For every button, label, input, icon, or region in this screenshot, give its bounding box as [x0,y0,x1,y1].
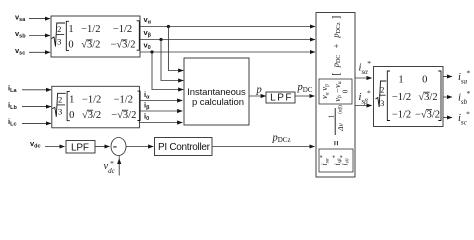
wire summer to PI [126,146,153,148]
block U5 current reference calculator (tall) [316,13,355,178]
wire i_beta to p-calc [139,110,182,112]
wire pDC to big block [295,95,315,97]
wire isalpha* ref to inverse block [355,77,372,79]
bracket [ U6 [387,71,390,121]
wire i_alpha to p-calc [139,100,182,102]
block U8 PI Controller [155,138,213,156]
block U1 Clarke transform (voltages) [51,16,140,57]
svg-text:PI Controller: PI Controller [158,142,211,153]
svg-text:vdc: vdc [30,139,41,150]
svg-text:p calculation: p calculation [192,97,244,108]
junction dot v_beta [159,38,162,41]
svg-text:(αβ): (αβ) [339,105,344,114]
svg-text:isc*: isc* [458,109,470,126]
block U3 instantaneous p calculation [184,58,249,125]
block U7 LPF (vdc path) [66,141,95,154]
equals sign rotated [334,141,336,145]
svg-text:vα vβ: vα vβ [320,84,330,99]
wire v_0 drop to p-calc [152,52,183,90]
inner box voltage matrix (rotated) [319,79,352,104]
wire iLc [22,122,51,124]
svg-text:−√3/2: −√3/2 [415,109,440,121]
wire iLb [22,106,51,108]
wire vsc [29,51,50,53]
svg-text:−1/2: −1/2 [392,110,411,121]
wire isc* output [443,117,452,119]
svg-text:vβ: vβ [144,28,152,39]
svg-text:0: 0 [422,75,427,86]
svg-text:0: 0 [341,89,349,93]
svg-text:vα: vα [144,15,152,26]
svg-text:pDC: pDC [331,55,342,69]
svg-text:isb*: isb* [458,89,470,106]
svg-text:3: 3 [380,98,384,108]
svg-text:iLa: iLa [8,84,17,95]
block U6 inverse Clarke transform [374,67,444,127]
svg-text:2: 2 [380,85,384,95]
wire vsb [29,35,50,37]
inner box current vector (rotated) [319,149,353,172]
wire v_beta to big block [140,39,315,41]
svg-text:pDCz: pDCz [272,132,291,144]
svg-text:i0: i0 [144,112,149,123]
wire v_beta drop to p-calc [161,40,183,81]
svg-text:isa*: isa* [458,68,470,85]
summing junction S1 [111,138,126,156]
wire isbeta* ref to inverse block [355,105,372,107]
svg-text:pDCz: pDCz [331,22,342,39]
svg-text:+: + [331,43,341,48]
wire isa* output [443,76,452,78]
svg-text:vsc: vsc [15,46,25,57]
wire vsa [29,18,50,20]
wire v_alpha drop to p-calc [168,27,183,71]
svg-text:pDC: pDC [297,82,313,94]
svg-text:vsb: vsb [15,29,26,40]
svg-text:1: 1 [398,75,403,86]
wire pDCz to big block [213,146,315,148]
wire iLa [22,89,51,91]
svg-text:v0: v0 [144,41,151,52]
svg-text:Δv: Δv [336,122,345,131]
wire LPF1 to summer [95,146,110,148]
svg-text:isβ*: isβ* [359,88,371,105]
svg-text:]: ] [331,16,342,19]
wire v_alpha to big block [140,26,315,28]
bracket ] U6 [438,71,441,121]
junction dot v_0 [150,50,153,53]
svg-text:iα: iα [144,90,150,101]
svg-text:LPF: LPF [71,142,89,153]
wire vdc* reference up into summer [118,156,120,159]
svg-text:isα*: isα* [359,59,371,76]
wire isb* output [443,96,452,98]
svg-text:vsa: vsa [15,12,26,23]
svg-text:iβ: iβ [144,101,150,112]
sqrt(2/3) radical U6 [376,81,387,107]
wire i_0 to p-calc [139,122,182,124]
wire p to LPF [249,95,266,97]
block U4 LPF (p path) [266,92,295,103]
svg-text:LPF: LPF [270,92,291,103]
junction dot v_alpha [167,25,170,28]
svg-text:1: 1 [327,114,336,118]
svg-text:iLc: iLc [8,117,17,128]
svg-text:vdc*: vdc* [104,159,116,175]
svg-text:[: [ [331,72,342,75]
svg-text:−1/2: −1/2 [392,92,411,103]
wire vdc to LPF1 [45,146,65,148]
svg-text:√3/2: √3/2 [418,91,437,103]
svg-text:isα*: isα* [320,155,331,165]
wire v_0 to big block [140,51,315,53]
svg-text:p: p [256,85,262,96]
block U2 Clarke transform (currents) [52,86,140,128]
fraction bar [334,108,336,135]
svg-text:iLb: iLb [8,100,17,111]
minus sign in summer [113,146,116,148]
